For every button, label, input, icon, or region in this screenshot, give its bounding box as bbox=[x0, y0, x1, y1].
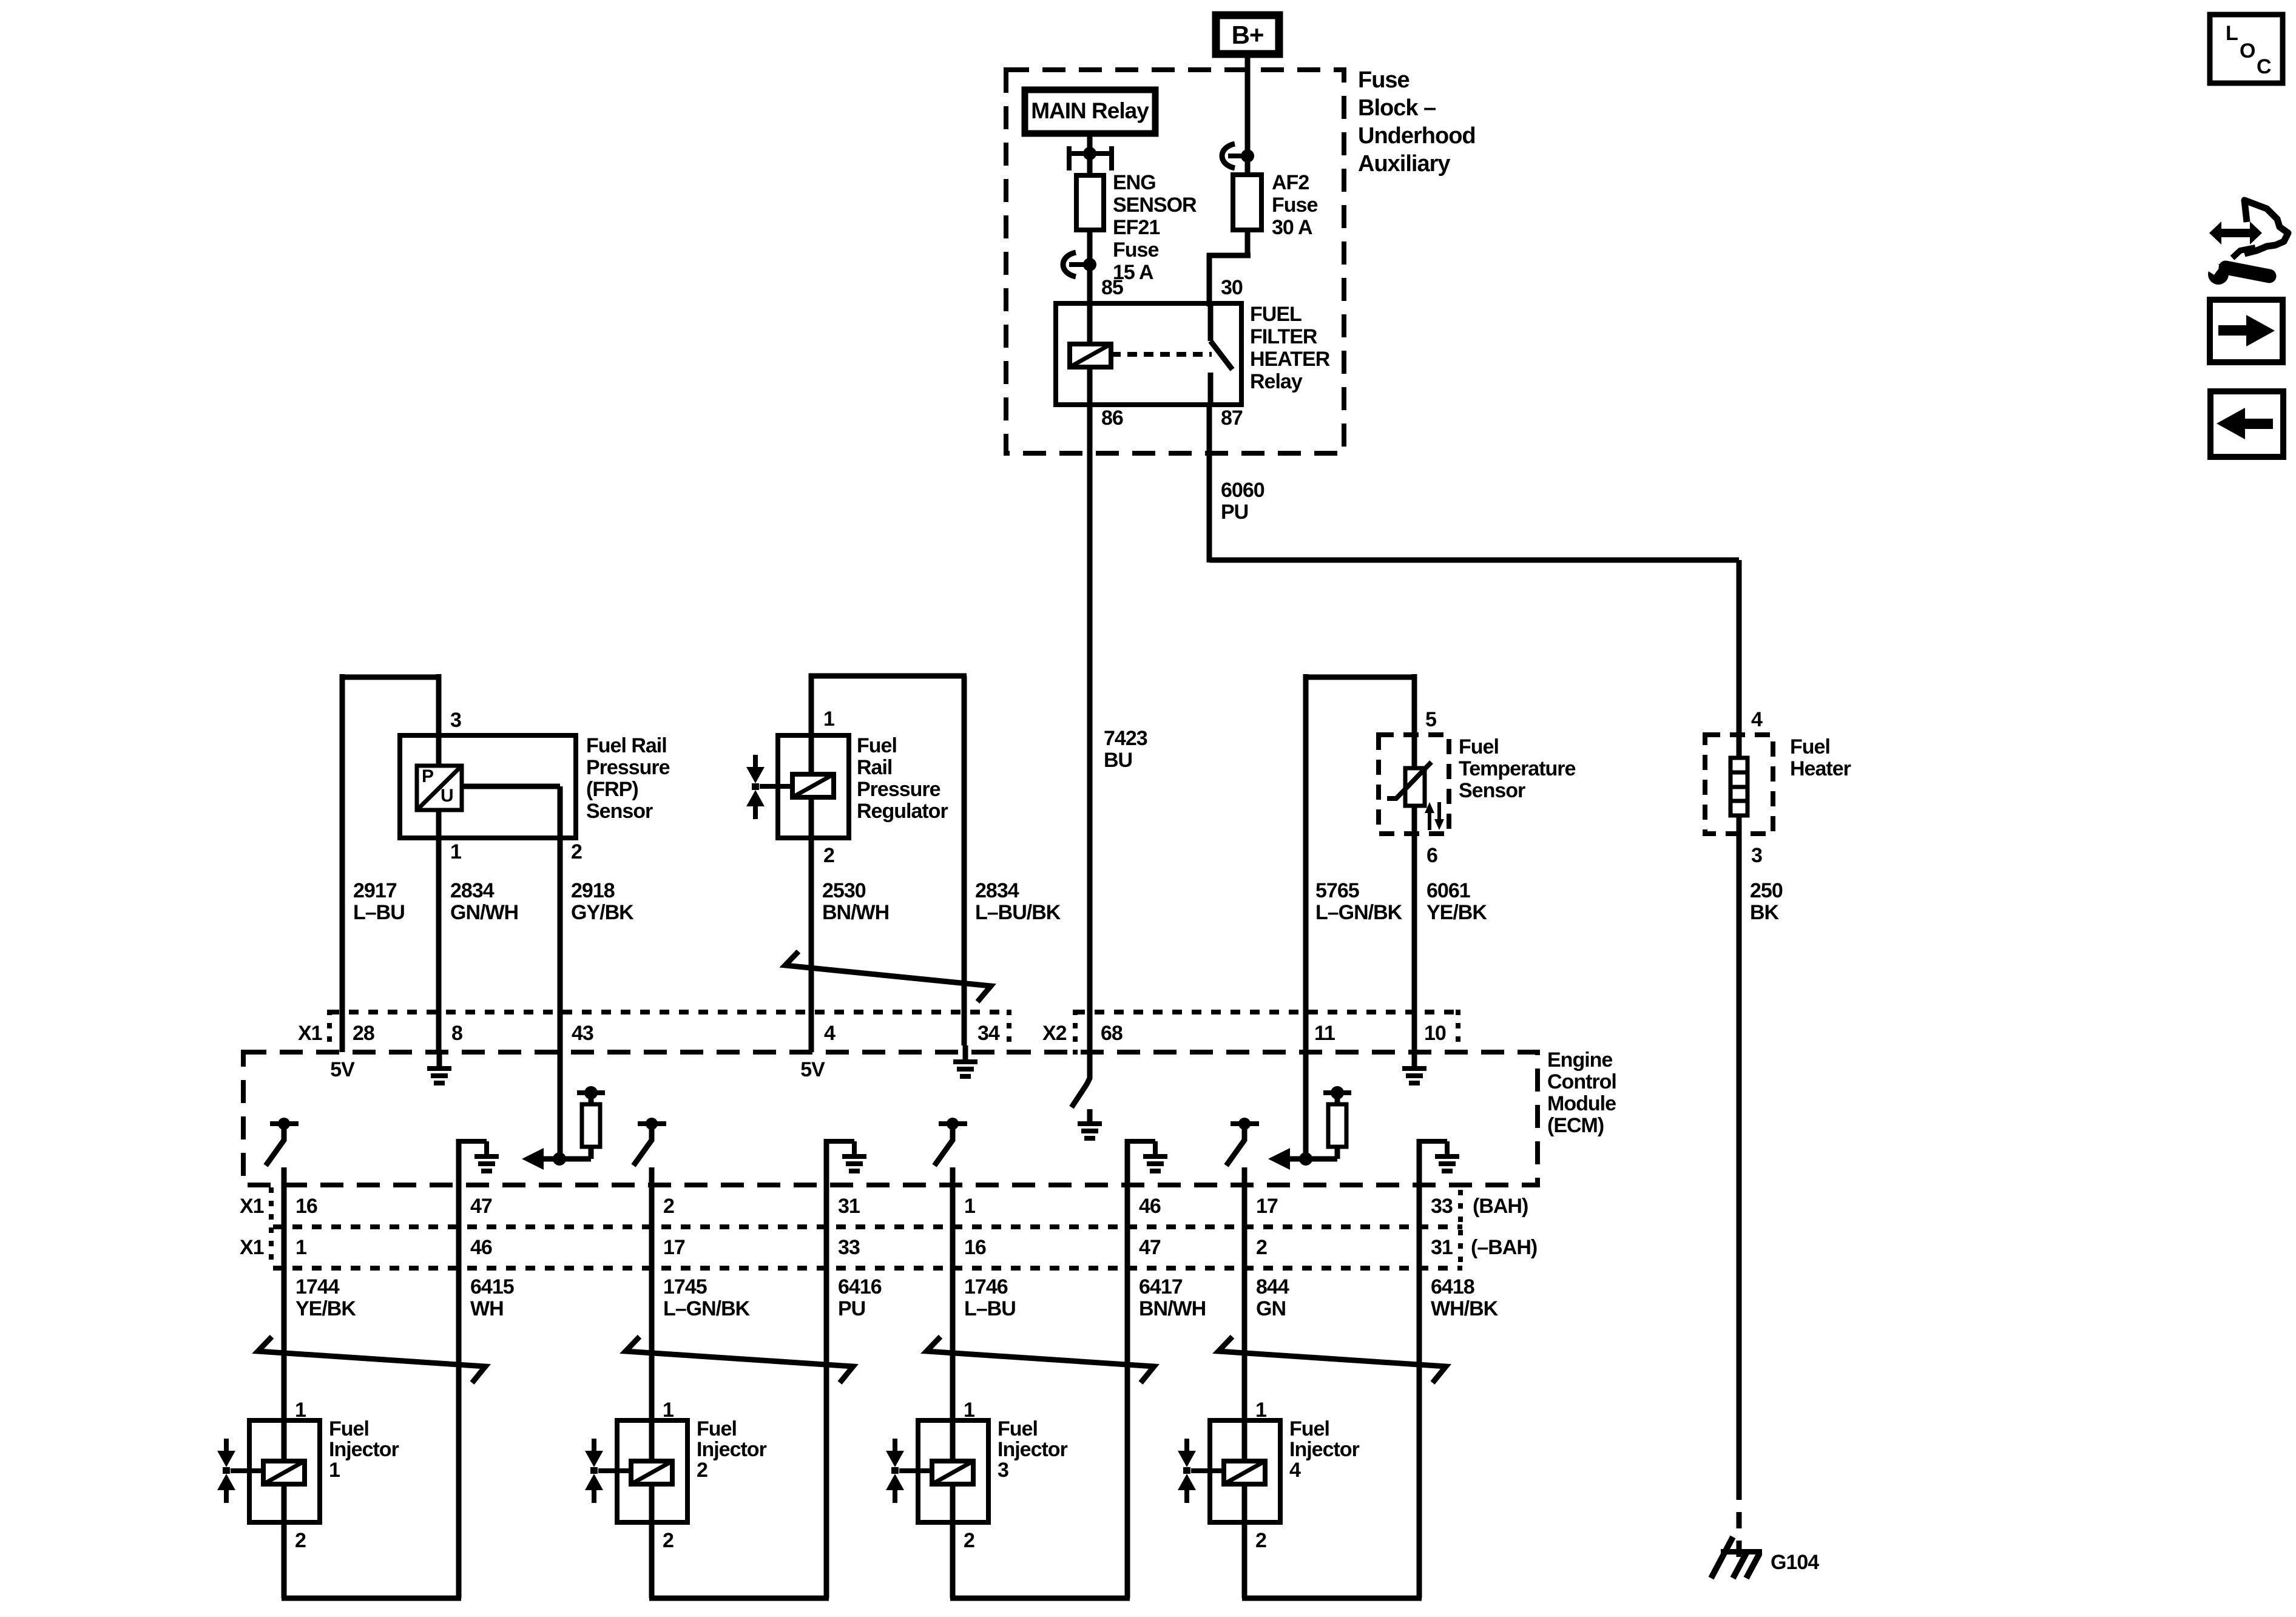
svg-text:C: C bbox=[2257, 55, 2271, 78]
svg-text:Fuse: Fuse bbox=[1358, 67, 1410, 93]
svg-text:1: 1 bbox=[964, 1195, 975, 1218]
svg-text:G104: G104 bbox=[1771, 1551, 1819, 1574]
svg-text:1: 1 bbox=[663, 1399, 674, 1422]
svg-text:L–GN/BK: L–GN/BK bbox=[663, 1297, 751, 1320]
svg-text:BK: BK bbox=[1750, 901, 1780, 924]
svg-text:Regulator: Regulator bbox=[857, 800, 948, 823]
svg-text:3: 3 bbox=[450, 709, 461, 732]
svg-text:Fuel: Fuel bbox=[329, 1417, 369, 1440]
svg-text:WH/BK: WH/BK bbox=[1431, 1297, 1499, 1320]
svg-text:1745: 1745 bbox=[663, 1275, 707, 1298]
svg-text:FUEL: FUEL bbox=[1250, 303, 1302, 326]
svg-text:L–BU/BK: L–BU/BK bbox=[975, 901, 1061, 924]
svg-text:Module: Module bbox=[1547, 1092, 1616, 1115]
svg-text:2: 2 bbox=[663, 1529, 674, 1552]
svg-text:GN/WH: GN/WH bbox=[450, 901, 518, 924]
svg-text:17: 17 bbox=[1256, 1195, 1278, 1218]
svg-text:Sensor: Sensor bbox=[586, 800, 653, 823]
svg-text:YE/BK: YE/BK bbox=[1427, 901, 1487, 924]
svg-text:1: 1 bbox=[823, 707, 834, 731]
svg-text:31: 31 bbox=[1431, 1236, 1453, 1259]
svg-text:7423: 7423 bbox=[1104, 727, 1147, 750]
svg-text:87: 87 bbox=[1221, 407, 1243, 430]
svg-text:5V: 5V bbox=[800, 1058, 825, 1081]
svg-text:33: 33 bbox=[838, 1236, 860, 1259]
svg-text:43: 43 bbox=[572, 1022, 593, 1045]
svg-text:30 A: 30 A bbox=[1272, 216, 1312, 239]
svg-text:1746: 1746 bbox=[964, 1275, 1008, 1298]
svg-text:B+: B+ bbox=[1232, 21, 1264, 49]
svg-text:1: 1 bbox=[964, 1399, 974, 1422]
svg-text:17: 17 bbox=[663, 1236, 685, 1259]
svg-text:4: 4 bbox=[1289, 1459, 1301, 1482]
svg-text:1: 1 bbox=[1255, 1399, 1266, 1422]
svg-text:X2: X2 bbox=[1042, 1022, 1067, 1045]
svg-text:GN: GN bbox=[1256, 1297, 1286, 1320]
svg-text:Control: Control bbox=[1547, 1070, 1616, 1093]
svg-text:Sensor: Sensor bbox=[1459, 779, 1525, 802]
svg-text:33: 33 bbox=[1431, 1195, 1453, 1218]
svg-text:L–BU: L–BU bbox=[964, 1297, 1016, 1320]
svg-text:8: 8 bbox=[451, 1022, 462, 1045]
svg-text:46: 46 bbox=[470, 1236, 492, 1259]
svg-text:6417: 6417 bbox=[1139, 1275, 1183, 1298]
svg-text:Underhood: Underhood bbox=[1358, 123, 1476, 149]
svg-text:2: 2 bbox=[663, 1195, 674, 1218]
svg-text:Fuel: Fuel bbox=[697, 1417, 737, 1440]
svg-text:68: 68 bbox=[1101, 1022, 1123, 1045]
svg-text:Fuel Rail: Fuel Rail bbox=[586, 734, 667, 757]
svg-text:Injector: Injector bbox=[329, 1438, 399, 1461]
svg-text:GY/BK: GY/BK bbox=[571, 901, 634, 924]
svg-text:46: 46 bbox=[1139, 1195, 1161, 1218]
svg-text:2: 2 bbox=[964, 1529, 974, 1552]
svg-text:Heater: Heater bbox=[1790, 757, 1851, 780]
svg-text:BN/WH: BN/WH bbox=[822, 901, 889, 924]
svg-text:3: 3 bbox=[998, 1459, 1008, 1482]
svg-text:EF21: EF21 bbox=[1113, 216, 1160, 239]
svg-text:(FRP): (FRP) bbox=[586, 778, 638, 801]
svg-text:Fuel: Fuel bbox=[1289, 1417, 1329, 1440]
svg-text:2: 2 bbox=[1256, 1236, 1267, 1259]
svg-text:5: 5 bbox=[1425, 708, 1436, 731]
svg-text:6415: 6415 bbox=[470, 1275, 514, 1298]
svg-text:6061: 6061 bbox=[1427, 879, 1470, 902]
svg-text:6416: 6416 bbox=[838, 1275, 882, 1298]
svg-text:Temperature: Temperature bbox=[1459, 757, 1576, 780]
svg-text:2918: 2918 bbox=[571, 879, 615, 902]
svg-text:1744: 1744 bbox=[295, 1275, 340, 1298]
svg-text:U: U bbox=[441, 786, 453, 806]
svg-text:Pressure: Pressure bbox=[586, 756, 670, 779]
svg-text:844: 844 bbox=[1256, 1275, 1289, 1298]
svg-text:BN/WH: BN/WH bbox=[1139, 1297, 1206, 1320]
svg-text:Fuse: Fuse bbox=[1113, 238, 1158, 262]
svg-text:Engine: Engine bbox=[1547, 1048, 1612, 1072]
svg-text:47: 47 bbox=[1139, 1236, 1161, 1259]
svg-text:MAIN Relay: MAIN Relay bbox=[1031, 98, 1149, 123]
svg-text:2530: 2530 bbox=[822, 879, 866, 902]
svg-text:BU: BU bbox=[1104, 749, 1132, 772]
svg-text:1: 1 bbox=[295, 1399, 306, 1422]
svg-text:Fuse: Fuse bbox=[1272, 194, 1317, 217]
svg-text:16: 16 bbox=[964, 1236, 986, 1259]
svg-text:6418: 6418 bbox=[1431, 1275, 1474, 1298]
svg-text:31: 31 bbox=[838, 1195, 860, 1218]
svg-text:HEATER: HEATER bbox=[1250, 348, 1330, 371]
svg-text:Fuel: Fuel bbox=[857, 734, 897, 757]
svg-text:47: 47 bbox=[470, 1195, 492, 1218]
svg-text:Block –: Block – bbox=[1358, 95, 1436, 121]
svg-text:6060: 6060 bbox=[1221, 479, 1264, 502]
svg-text:YE/BK: YE/BK bbox=[295, 1297, 356, 1320]
svg-text:PU: PU bbox=[838, 1297, 865, 1320]
svg-text:L–BU: L–BU bbox=[353, 901, 405, 924]
svg-text:2: 2 bbox=[823, 844, 834, 867]
svg-text:(BAH): (BAH) bbox=[1473, 1195, 1528, 1218]
svg-text:Injector: Injector bbox=[998, 1438, 1068, 1461]
svg-text:L: L bbox=[2226, 22, 2238, 45]
svg-text:X1: X1 bbox=[298, 1022, 322, 1045]
svg-text:2: 2 bbox=[697, 1459, 707, 1482]
svg-text:2: 2 bbox=[295, 1529, 306, 1552]
svg-text:86: 86 bbox=[1101, 407, 1123, 430]
svg-text:10: 10 bbox=[1424, 1022, 1446, 1045]
svg-text:L–GN/BK: L–GN/BK bbox=[1315, 901, 1403, 924]
svg-text:2: 2 bbox=[571, 840, 582, 863]
svg-text:AF2: AF2 bbox=[1272, 171, 1309, 194]
svg-text:2: 2 bbox=[1255, 1529, 1266, 1552]
svg-text:X1: X1 bbox=[240, 1195, 264, 1218]
svg-text:Relay: Relay bbox=[1250, 370, 1303, 393]
svg-text:1: 1 bbox=[329, 1459, 340, 1482]
svg-text:Fuel: Fuel bbox=[1459, 735, 1499, 758]
svg-text:11: 11 bbox=[1314, 1022, 1335, 1045]
svg-text:Auxiliary: Auxiliary bbox=[1358, 151, 1450, 177]
svg-text:16: 16 bbox=[295, 1195, 317, 1218]
svg-text:34: 34 bbox=[977, 1022, 1000, 1045]
svg-text:1: 1 bbox=[295, 1236, 306, 1259]
svg-text:30: 30 bbox=[1221, 276, 1243, 299]
svg-text:PU: PU bbox=[1221, 501, 1248, 524]
svg-text:O: O bbox=[2240, 39, 2255, 62]
svg-text:Injector: Injector bbox=[697, 1438, 767, 1461]
svg-text:(ECM): (ECM) bbox=[1547, 1114, 1604, 1137]
svg-text:(–BAH): (–BAH) bbox=[1471, 1236, 1537, 1259]
svg-text:5V: 5V bbox=[330, 1058, 355, 1081]
svg-text:2834: 2834 bbox=[450, 879, 495, 902]
svg-text:X1: X1 bbox=[240, 1236, 264, 1259]
svg-text:250: 250 bbox=[1750, 879, 1783, 902]
svg-text:4: 4 bbox=[1751, 708, 1763, 731]
svg-text:Injector: Injector bbox=[1289, 1438, 1360, 1461]
svg-text:4: 4 bbox=[824, 1022, 836, 1045]
svg-text:2834: 2834 bbox=[975, 879, 1019, 902]
svg-text:P: P bbox=[422, 766, 433, 786]
svg-text:SENSOR: SENSOR bbox=[1113, 194, 1197, 217]
svg-text:Fuel: Fuel bbox=[998, 1417, 1038, 1440]
svg-text:WH: WH bbox=[470, 1297, 504, 1320]
svg-text:Pressure: Pressure bbox=[857, 778, 940, 801]
svg-text:1: 1 bbox=[450, 840, 461, 863]
svg-text:Fuel: Fuel bbox=[1790, 735, 1830, 758]
svg-text:FILTER: FILTER bbox=[1250, 325, 1317, 348]
svg-text:85: 85 bbox=[1101, 276, 1123, 299]
svg-text:6: 6 bbox=[1427, 844, 1437, 867]
svg-text:28: 28 bbox=[353, 1022, 374, 1045]
svg-text:2917: 2917 bbox=[353, 879, 397, 902]
svg-text:Rail: Rail bbox=[857, 756, 892, 779]
svg-text:ENG: ENG bbox=[1113, 171, 1156, 194]
svg-text:5765: 5765 bbox=[1315, 879, 1359, 902]
svg-text:3: 3 bbox=[1751, 844, 1762, 867]
